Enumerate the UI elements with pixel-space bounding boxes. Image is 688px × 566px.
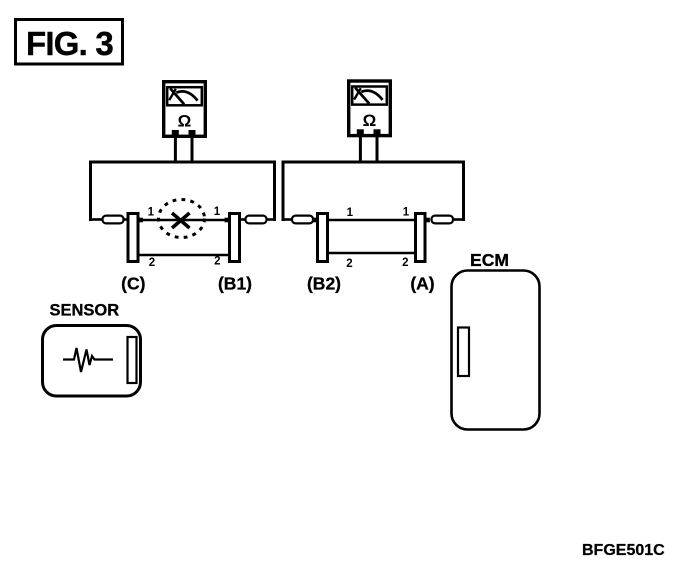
wire pin1 C to B1 bbox=[143, 219, 229, 222]
connector C pin1 nub bbox=[140, 218, 143, 223]
ohmmeter U2 needle bbox=[354, 88, 369, 104]
wire stub right of connector B1 bbox=[241, 216, 276, 224]
ohmmeter U1 test leads bbox=[175, 137, 192, 162]
wire pin1 B2 to A bbox=[329, 219, 414, 222]
sensor waveform bbox=[63, 348, 113, 372]
svg-text:FIG. 3: FIG. 3 bbox=[26, 25, 113, 62]
ohmmeter U2 body bbox=[349, 81, 391, 136]
ECM body bbox=[452, 271, 540, 430]
ohmmeter U2 scale arc bbox=[361, 91, 382, 100]
ohmmeter U2 terminals bbox=[357, 129, 381, 137]
connector B2 bbox=[318, 214, 328, 262]
connector C bbox=[128, 214, 138, 262]
ECM connector slot bbox=[458, 328, 469, 377]
ohmmeter U1 terminals bbox=[172, 130, 196, 138]
connector A bbox=[416, 214, 426, 262]
svg-text:SENSOR: SENSOR bbox=[50, 302, 120, 320]
svg-text:1: 1 bbox=[214, 206, 221, 218]
connector B1 bbox=[230, 214, 240, 262]
connector B1 pin1 nub bbox=[225, 218, 228, 223]
connector B2 pin1 nub bbox=[313, 218, 316, 223]
svg-text:1: 1 bbox=[347, 207, 354, 219]
svg-text:BFGE501C: BFGE501C bbox=[582, 542, 665, 559]
svg-text:1: 1 bbox=[403, 207, 410, 219]
ohmmeter U1 needle bbox=[169, 88, 184, 104]
svg-text:(B2): (B2) bbox=[307, 274, 341, 294]
wire stub left of connector B2 bbox=[282, 216, 314, 224]
ohmmeter U1 scale arc bbox=[176, 91, 197, 100]
svg-text:Ω: Ω bbox=[363, 111, 377, 130]
ohmmeter U1 body bbox=[164, 82, 206, 137]
svg-text:(A): (A) bbox=[410, 274, 434, 294]
wire stub right of connector A bbox=[432, 216, 466, 224]
svg-text:(B1): (B1) bbox=[218, 274, 252, 294]
svg-text:2: 2 bbox=[149, 257, 155, 269]
wire pin2 B2 to A bbox=[329, 252, 415, 254]
svg-text:2: 2 bbox=[346, 258, 352, 270]
connector A pin1 nub bbox=[427, 218, 430, 223]
sensor connector slot bbox=[128, 337, 137, 383]
svg-text:2: 2 bbox=[214, 256, 220, 268]
svg-text:Ω: Ω bbox=[178, 112, 192, 131]
svg-text:ECM: ECM bbox=[470, 250, 509, 270]
wire pin2 C to B1 bbox=[140, 254, 229, 256]
open-circuit X mark bbox=[172, 213, 190, 228]
svg-text:2: 2 bbox=[402, 257, 408, 269]
wire loop left (ohmmeter U1 harness) bbox=[91, 162, 275, 221]
ohmmeter U2 test leads bbox=[360, 136, 377, 162]
sensor body bbox=[43, 326, 141, 397]
svg-text:1: 1 bbox=[148, 207, 155, 219]
open-circuit dotted circle bbox=[159, 200, 205, 238]
wire loop right (ohmmeter U2 harness) bbox=[283, 162, 464, 221]
wire stub left of connector C bbox=[89, 216, 127, 224]
svg-text:(C): (C) bbox=[121, 274, 145, 294]
figure title box FIG. 3 bbox=[16, 20, 123, 65]
